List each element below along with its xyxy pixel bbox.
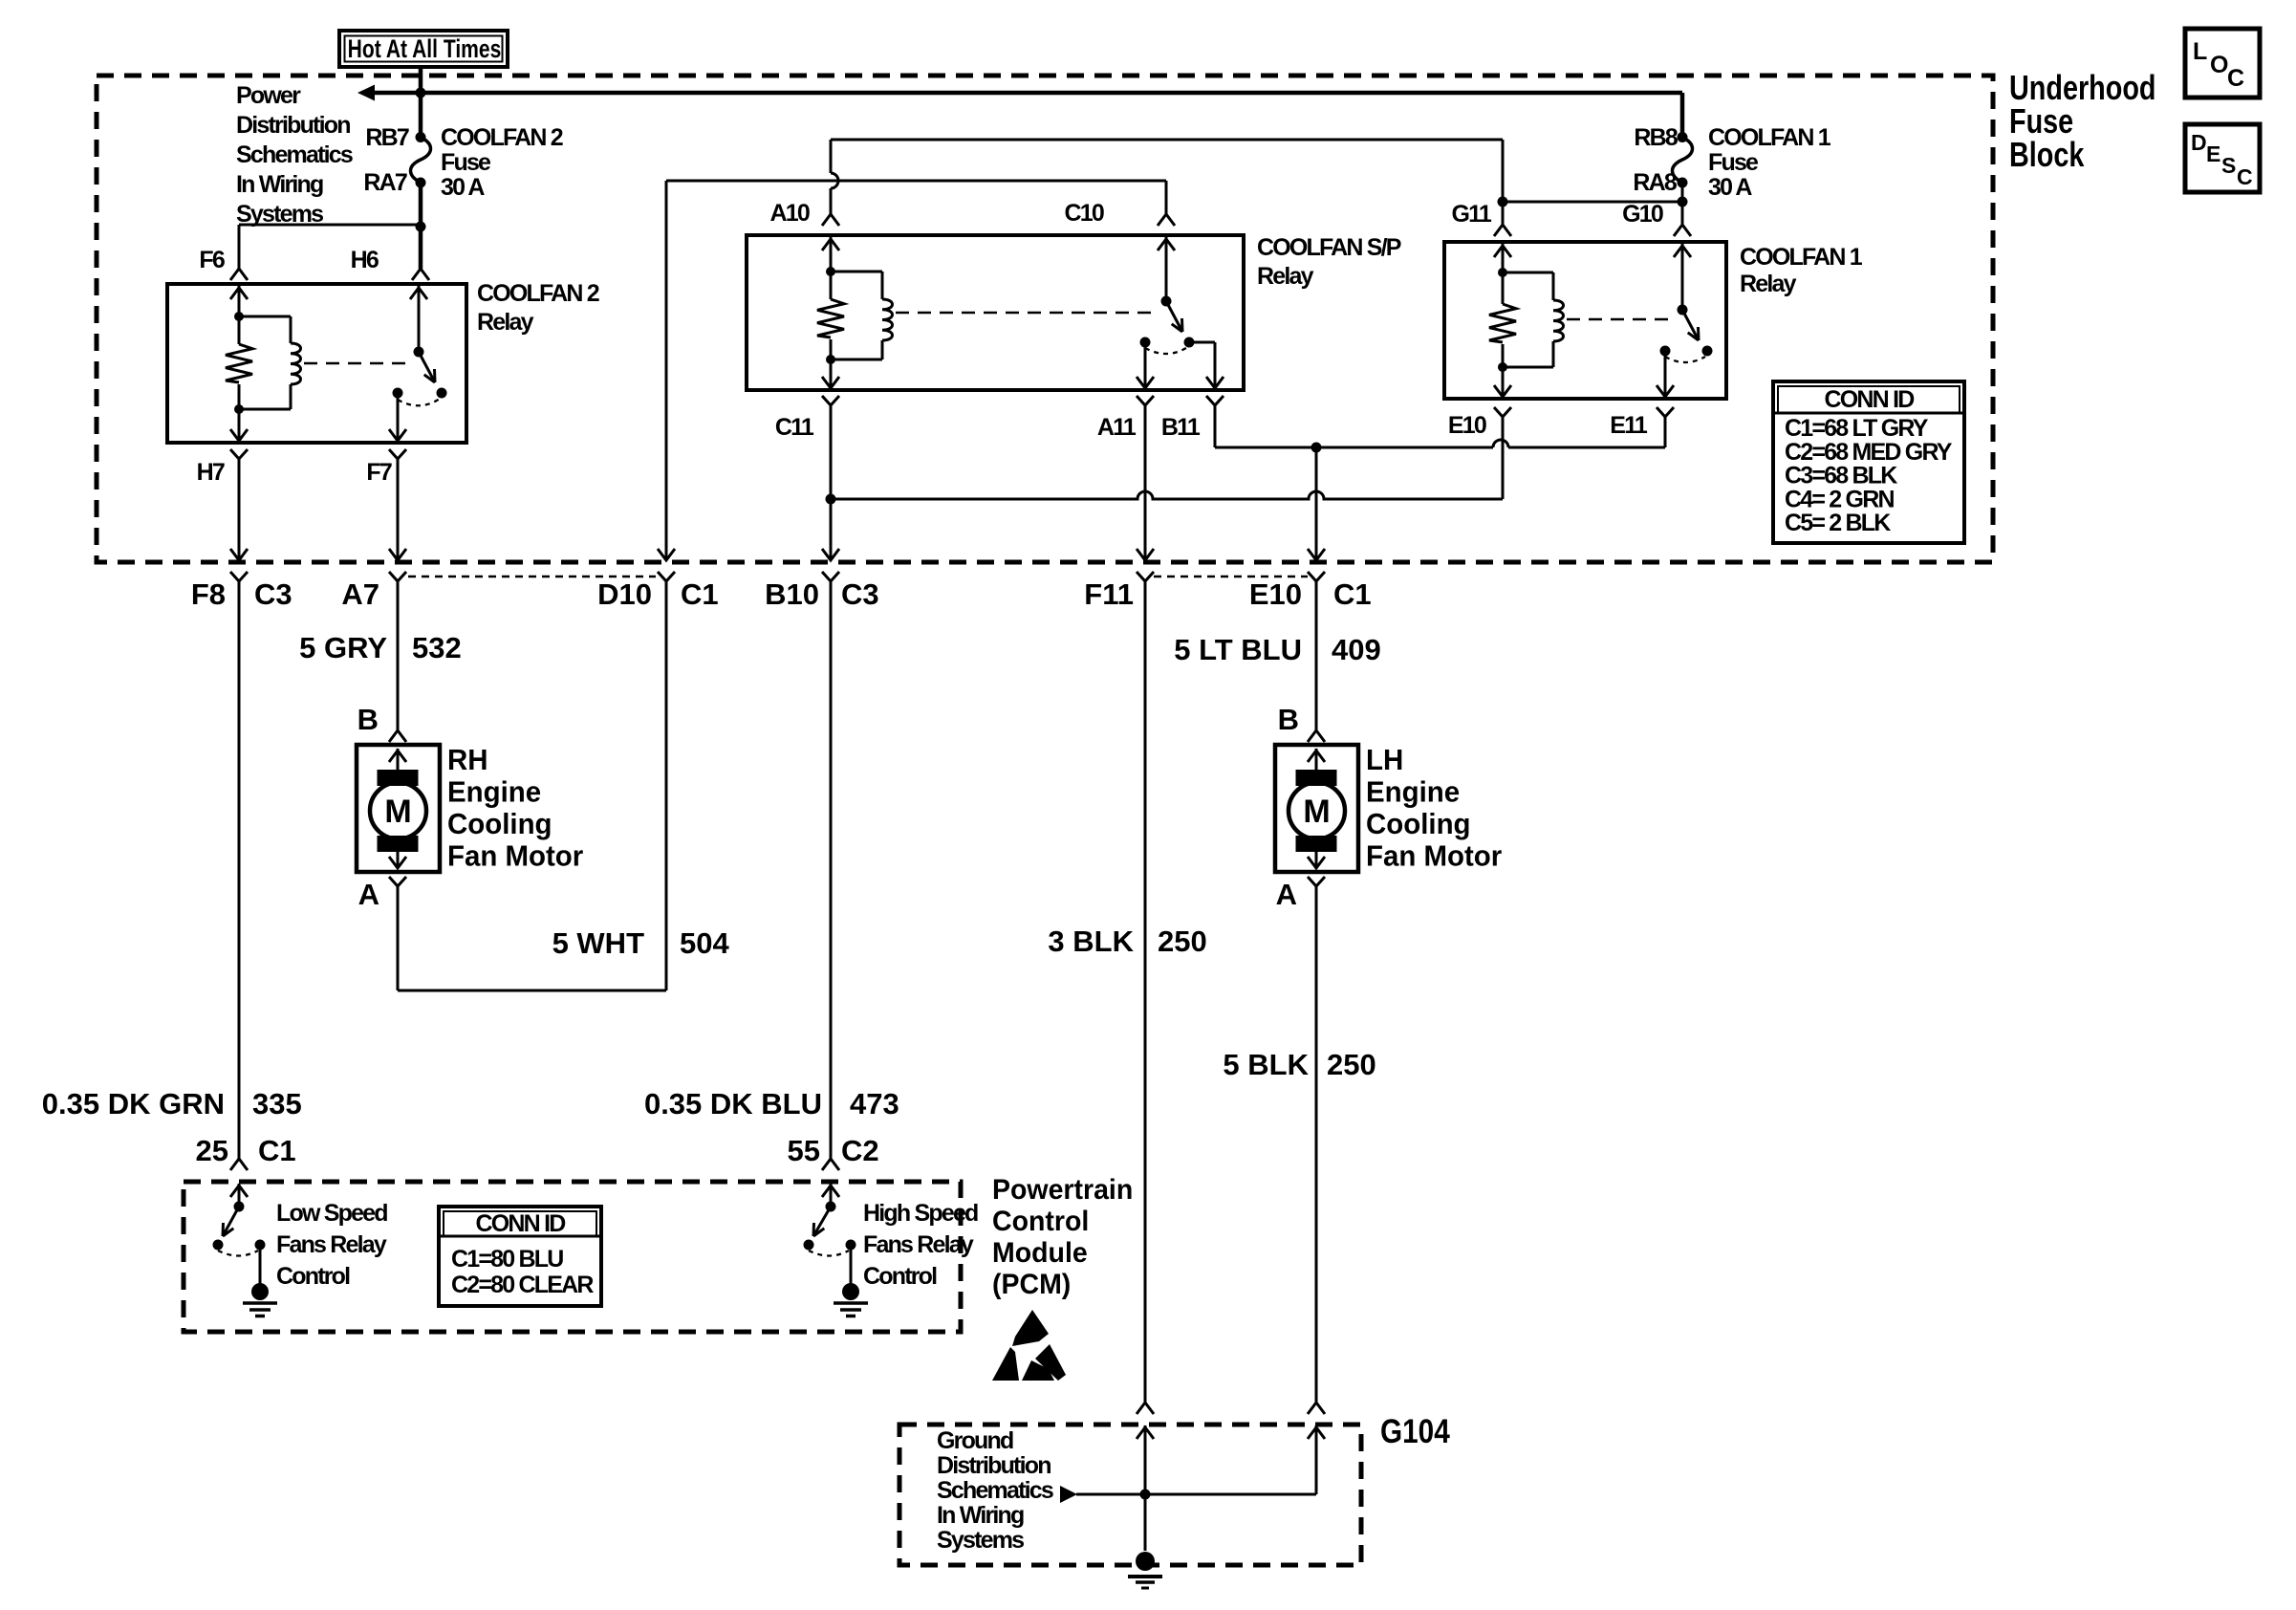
svg-text:Low Speed: Low Speed bbox=[276, 1200, 387, 1227]
svg-text:C2=68 MED GRY: C2=68 MED GRY bbox=[1785, 439, 1953, 466]
svg-text:C1: C1 bbox=[681, 577, 719, 611]
svg-text:C: C bbox=[2237, 164, 2252, 189]
svg-text:Schematics: Schematics bbox=[937, 1477, 1053, 1504]
svg-text:High Speed: High Speed bbox=[863, 1200, 978, 1227]
svg-text:D10: D10 bbox=[597, 577, 652, 611]
svg-text:RA8: RA8 bbox=[1633, 169, 1678, 196]
svg-text:RH: RH bbox=[447, 744, 488, 776]
svg-text:C: C bbox=[2227, 65, 2244, 92]
svg-text:Systems: Systems bbox=[937, 1527, 1024, 1554]
svg-text:5 LT BLU: 5 LT BLU bbox=[1174, 633, 1302, 666]
svg-text:0.35 DK GRN: 0.35 DK GRN bbox=[42, 1087, 225, 1120]
svg-text:Cooling: Cooling bbox=[1366, 808, 1471, 840]
svg-text:C5= 2 BLK: C5= 2 BLK bbox=[1785, 510, 1891, 536]
svg-text:C1: C1 bbox=[258, 1134, 296, 1167]
svg-text:Control: Control bbox=[863, 1263, 937, 1290]
svg-text:G10: G10 bbox=[1622, 201, 1663, 228]
svg-text:Module: Module bbox=[992, 1237, 1088, 1269]
svg-text:Ground: Ground bbox=[937, 1427, 1013, 1454]
svg-text:COOLFAN 2: COOLFAN 2 bbox=[441, 124, 563, 151]
svg-text:M: M bbox=[384, 794, 411, 830]
svg-text:A: A bbox=[358, 878, 379, 911]
svg-text:COOLFAN 2: COOLFAN 2 bbox=[477, 280, 599, 307]
svg-text:COOLFAN 1: COOLFAN 1 bbox=[1708, 124, 1831, 151]
svg-text:Distribution: Distribution bbox=[236, 112, 350, 139]
svg-text:473: 473 bbox=[850, 1087, 899, 1120]
svg-text:C10: C10 bbox=[1065, 200, 1104, 227]
svg-text:532: 532 bbox=[412, 631, 462, 664]
svg-text:Relay: Relay bbox=[477, 309, 534, 336]
svg-text:Relay: Relay bbox=[1257, 263, 1314, 290]
svg-text:C2=80 CLEAR: C2=80 CLEAR bbox=[451, 1272, 594, 1298]
svg-text:Engine: Engine bbox=[447, 776, 541, 809]
svg-text:Control: Control bbox=[992, 1206, 1089, 1237]
svg-text:H6: H6 bbox=[351, 247, 379, 273]
svg-text:A11: A11 bbox=[1097, 414, 1137, 441]
svg-text:Distribution: Distribution bbox=[937, 1452, 1051, 1479]
svg-text:LH: LH bbox=[1366, 744, 1403, 776]
svg-text:F6: F6 bbox=[199, 247, 224, 273]
svg-text:In Wiring: In Wiring bbox=[937, 1502, 1024, 1529]
svg-text:C1=68 LT GRY: C1=68 LT GRY bbox=[1785, 415, 1929, 442]
svg-text:F8: F8 bbox=[191, 577, 226, 611]
svg-text:250: 250 bbox=[1327, 1048, 1376, 1081]
svg-text:C3: C3 bbox=[254, 577, 292, 611]
svg-text:Relay: Relay bbox=[1740, 271, 1797, 297]
svg-text:504: 504 bbox=[680, 926, 729, 960]
svg-text:F11: F11 bbox=[1084, 577, 1134, 611]
svg-text:B11: B11 bbox=[1161, 414, 1201, 441]
svg-text:Block: Block bbox=[2009, 135, 2085, 174]
svg-text:In Wiring: In Wiring bbox=[236, 171, 323, 198]
svg-text:A: A bbox=[1276, 878, 1297, 911]
svg-text:C1=80 BLU: C1=80 BLU bbox=[451, 1246, 563, 1273]
svg-text:Fans Relay: Fans Relay bbox=[276, 1231, 387, 1258]
svg-text:335: 335 bbox=[252, 1087, 302, 1120]
svg-text:250: 250 bbox=[1158, 925, 1207, 958]
svg-text:B: B bbox=[357, 703, 379, 736]
svg-text:Fuse: Fuse bbox=[1708, 149, 1759, 176]
svg-text:Fans Relay: Fans Relay bbox=[863, 1231, 974, 1258]
svg-text:C3=68 BLK: C3=68 BLK bbox=[1785, 463, 1897, 490]
svg-text:B10: B10 bbox=[765, 577, 819, 611]
svg-text:RB8: RB8 bbox=[1634, 124, 1679, 151]
svg-text:A10: A10 bbox=[770, 200, 810, 227]
svg-text:E11: E11 bbox=[1610, 412, 1648, 439]
svg-text:Fan Motor: Fan Motor bbox=[447, 840, 583, 873]
svg-text:C4= 2 GRN: C4= 2 GRN bbox=[1785, 486, 1894, 512]
svg-text:Fan Motor: Fan Motor bbox=[1366, 840, 1502, 873]
svg-text:Fuse: Fuse bbox=[441, 149, 491, 176]
svg-text:F7: F7 bbox=[366, 459, 391, 486]
svg-text:C3: C3 bbox=[841, 577, 879, 611]
svg-text:L: L bbox=[2193, 38, 2207, 65]
svg-text:Control: Control bbox=[276, 1263, 350, 1290]
svg-text:409: 409 bbox=[1332, 633, 1381, 666]
svg-text:(PCM): (PCM) bbox=[992, 1269, 1071, 1300]
svg-text:COOLFAN S/P: COOLFAN S/P bbox=[1257, 234, 1401, 261]
svg-text:30 A: 30 A bbox=[441, 174, 485, 201]
svg-text:RB7: RB7 bbox=[365, 124, 409, 151]
svg-text:CONN ID: CONN ID bbox=[1825, 386, 1915, 413]
svg-text:Cooling: Cooling bbox=[447, 808, 552, 840]
svg-text:B: B bbox=[1278, 703, 1299, 736]
svg-text:25: 25 bbox=[196, 1134, 228, 1167]
svg-text:C1: C1 bbox=[1333, 577, 1372, 611]
svg-text:D: D bbox=[2191, 130, 2206, 155]
svg-text:55: 55 bbox=[788, 1134, 820, 1167]
svg-text:O: O bbox=[2210, 52, 2228, 78]
svg-text:C2: C2 bbox=[841, 1134, 879, 1167]
svg-text:30 A: 30 A bbox=[1708, 174, 1752, 201]
svg-text:A7: A7 bbox=[341, 577, 379, 611]
svg-text:M: M bbox=[1303, 794, 1330, 830]
svg-text:3 BLK: 3 BLK bbox=[1048, 925, 1134, 958]
svg-text:C11: C11 bbox=[775, 414, 814, 441]
svg-text:5 WHT: 5 WHT bbox=[552, 926, 645, 960]
svg-text:5 BLK: 5 BLK bbox=[1223, 1048, 1309, 1081]
svg-text:E10: E10 bbox=[1249, 577, 1302, 611]
svg-text:E10: E10 bbox=[1448, 412, 1486, 439]
svg-text:H7: H7 bbox=[197, 459, 225, 486]
svg-text:CONN ID: CONN ID bbox=[476, 1210, 566, 1237]
svg-text:5 GRY: 5 GRY bbox=[299, 631, 387, 664]
svg-text:E: E bbox=[2206, 141, 2220, 166]
svg-text:Schematics: Schematics bbox=[236, 141, 353, 168]
svg-text:S: S bbox=[2221, 153, 2236, 178]
svg-text:Powertrain: Powertrain bbox=[992, 1174, 1133, 1206]
svg-text:COOLFAN 1: COOLFAN 1 bbox=[1740, 244, 1863, 271]
svg-text:0.35 DK BLU: 0.35 DK BLU bbox=[644, 1087, 822, 1120]
svg-text:Power: Power bbox=[236, 82, 301, 109]
svg-text:Engine: Engine bbox=[1366, 776, 1460, 809]
svg-text:G11: G11 bbox=[1452, 201, 1492, 228]
svg-text:Hot At All Times: Hot At All Times bbox=[348, 35, 502, 64]
svg-text:RA7: RA7 bbox=[363, 169, 407, 196]
svg-text:G104: G104 bbox=[1380, 1413, 1450, 1450]
svg-text:Systems: Systems bbox=[236, 201, 323, 228]
